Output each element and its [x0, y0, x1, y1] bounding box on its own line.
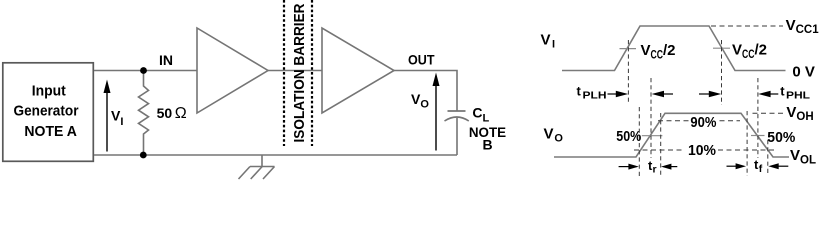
svg-text:r: r — [653, 164, 657, 176]
svg-text:VCC/2: VCC/2 — [732, 42, 767, 62]
svg-text:VOL: VOL — [790, 147, 816, 166]
dashed vertical VO rise 50% — [650, 78, 652, 158]
ground hatches — [263, 167, 275, 180]
svg-text:IN: IN — [159, 52, 173, 68]
svg-text:50%: 50% — [616, 128, 641, 145]
dashed vertical tr left 10% — [638, 107, 640, 176]
tick VI fall 50% — [713, 47, 730, 49]
op-amp buffer U2 — [322, 28, 394, 113]
wire buffer1 apex to buffer2 — [268, 70, 322, 72]
arrow VO (circuit) — [435, 85, 437, 151]
svg-text:ISOLATION BARRIER: ISOLATION BARRIER — [291, 3, 308, 142]
tick VO rise 50% — [642, 135, 663, 137]
wire capacitor to bottom rail — [456, 118, 458, 155]
capacitor CL top plate — [448, 110, 466, 112]
wire box to IN node — [94, 70, 197, 72]
dashed level 90% — [658, 120, 689, 122]
dashed vertical tf right 10% — [767, 140, 769, 176]
resistor R 50ohm — [139, 71, 149, 156]
dashed vertical tr right 90% — [660, 113, 662, 176]
svg-text:VO: VO — [411, 91, 429, 111]
arrow VI (circuit) — [106, 92, 108, 152]
svg-text:50%: 50% — [767, 129, 795, 146]
svg-text:NOTE A: NOTE A — [24, 123, 77, 140]
dashed vertical VI rise crossing — [627, 40, 629, 102]
svg-text:50: 50 — [157, 105, 173, 121]
node IN junction dot — [140, 67, 147, 74]
tick VO fall 50% — [751, 135, 765, 137]
ground stub — [250, 155, 275, 167]
svg-text:OUT: OUT — [408, 52, 435, 68]
waveform VI — [562, 26, 786, 71]
svg-text:Ω: Ω — [175, 105, 187, 122]
svg-text:PLH: PLH — [583, 90, 607, 102]
svg-text:PHL: PHL — [786, 90, 811, 102]
svg-text:0 V: 0 V — [792, 64, 815, 81]
op-amp buffer U1 — [197, 28, 268, 113]
arrow tPHL end (points left at VO 50% crossing) — [758, 91, 778, 97]
svg-text:CL: CL — [472, 105, 489, 125]
svg-text:VCC1: VCC1 — [786, 17, 820, 36]
svg-text:Input: Input — [32, 82, 66, 99]
svg-text:VOH: VOH — [786, 104, 813, 123]
svg-text:10%: 10% — [688, 142, 716, 159]
wire bottom rail — [94, 154, 457, 156]
dashed level 10% — [634, 149, 684, 151]
isolation barrier dashed line left — [283, 0, 285, 146]
svg-text:t: t — [780, 84, 785, 99]
svg-text:B: B — [482, 137, 492, 153]
dashed vertical tf left 90% — [746, 111, 748, 176]
arrow tPLH start (points right at VI crossing) — [608, 91, 629, 97]
svg-text:f: f — [759, 163, 763, 175]
svg-text:VCC/2: VCC/2 — [641, 42, 676, 62]
tick VI rise 50% — [620, 48, 637, 50]
svg-text:t: t — [577, 84, 582, 99]
dashed vertical VI fall crossing — [721, 40, 723, 105]
capacitor CL curved plate — [445, 117, 469, 121]
arrow tf end (points left at 10% fall) — [768, 163, 788, 169]
svg-text:VI: VI — [541, 32, 556, 51]
svg-text:90%: 90% — [690, 114, 716, 131]
dashed level VCC1 — [711, 25, 783, 27]
wire OUT from buffer2 apex to corner — [394, 71, 457, 112]
dashed level VOH — [753, 112, 784, 114]
dashed vertical VO fall 50% — [757, 78, 759, 158]
svg-text:Generator: Generator — [14, 103, 79, 120]
arrow tr start (points right at 10% rise) — [619, 164, 639, 170]
waveform VO — [554, 113, 789, 157]
node bottom junction dot — [140, 152, 147, 159]
arrow tPHL start (points right at VI crossing) — [699, 91, 721, 97]
arrow tr end (points left at 90% rise) — [661, 164, 677, 170]
arrow tf start (points right at 90% fall) — [727, 163, 747, 169]
arrow tPLH end (points left at VO 50% crossing) — [652, 91, 673, 97]
svg-text:VO: VO — [544, 126, 564, 145]
svg-text:VI: VI — [111, 108, 123, 129]
input generator box — [3, 63, 94, 162]
isolation barrier dashed line right — [311, 0, 313, 146]
